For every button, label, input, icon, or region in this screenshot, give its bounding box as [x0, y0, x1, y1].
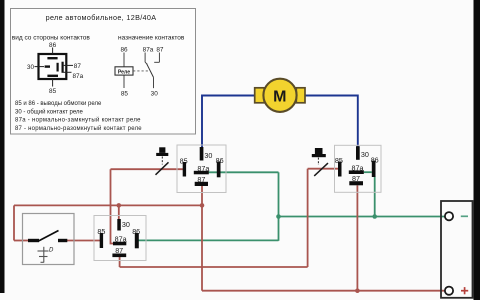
- svg-text:87: 87: [156, 47, 164, 54]
- svg-text:87: 87: [352, 174, 360, 183]
- relay K3 pin 87: [112, 246, 126, 257]
- relay K1 pin 30: [200, 147, 213, 161]
- relay K1 pin 86: [216, 156, 224, 177]
- pinout pin 87a lead: [62, 62, 84, 80]
- svg-text:85: 85: [97, 227, 105, 236]
- letterbox bar left: [0, 0, 5, 293]
- node: green junction at K2 drop: [372, 214, 377, 219]
- relay symbol: contact 87: [154, 47, 164, 63]
- wire red: relay K3 pin 87 down: [119, 257, 121, 268]
- pushbutton actuator icon at relay K1: [156, 147, 169, 175]
- node: red junction rail/K3-30: [117, 203, 122, 208]
- battery minus label: [461, 215, 468, 217]
- wire red: switch to relay K3 pin 85: [67, 240, 100, 242]
- svg-text:86: 86: [132, 227, 140, 236]
- relay K1 pin 87a: [194, 164, 210, 174]
- wire red: down to relay K3 pin 87a: [111, 169, 114, 243]
- battery / power connector X1: [441, 201, 473, 298]
- battery plus label: [461, 287, 468, 294]
- svg-text:86: 86: [216, 156, 224, 165]
- relay K3 pin 30: [117, 219, 130, 231]
- wire red: supply rail horizontal: [14, 204, 202, 206]
- switch S1 manual actuator glyph: [38, 247, 55, 263]
- svg-text:85: 85: [335, 156, 343, 165]
- relay K3 pin 87a: [113, 234, 127, 245]
- svg-text:87: 87: [115, 246, 123, 255]
- wire red: relay K2 pin 87 down to bottom run: [356, 185, 358, 290]
- svg-text:87a: 87a: [115, 234, 127, 243]
- svg-text:87 - нормально-разомкнутый кон: 87 - нормально-разомкнутый контакт реле: [15, 125, 142, 132]
- svg-text:87а - нормально-замкнутый конт: 87а - нормально-замкнутый контакт реле: [15, 117, 141, 124]
- svg-text:Реле: Реле: [118, 70, 130, 76]
- svg-text:30: 30: [204, 151, 212, 160]
- svg-text:87: 87: [74, 63, 82, 70]
- battery minus terminal: [445, 212, 453, 220]
- svg-text:30: 30: [361, 150, 369, 159]
- relay K3 pin 86: [132, 227, 140, 248]
- switch S1 lever: [39, 231, 59, 242]
- relay symbol: actuation dashed link: [133, 70, 149, 72]
- pushbutton actuator icon at relay K2: [312, 148, 328, 176]
- wire green: lower run to relay K3 pin 86: [139, 239, 279, 241]
- svg-text:87a: 87a: [197, 164, 209, 173]
- svg-text:30 - общий контакт реле: 30 - общий контакт реле: [15, 108, 84, 115]
- svg-text:86: 86: [120, 47, 128, 54]
- svg-text:реле автомобильное, 12В/40А: реле автомобильное, 12В/40А: [46, 13, 157, 22]
- svg-text:87a: 87a: [352, 164, 364, 173]
- node: green junction at A: [276, 214, 281, 219]
- switch S1 box: [23, 214, 75, 265]
- relay K1 pin 85: [180, 157, 188, 177]
- relay K3 body: [94, 216, 146, 261]
- svg-text:30: 30: [27, 64, 35, 71]
- switch S1 left contact: [28, 239, 39, 242]
- svg-text:D: D: [49, 248, 54, 254]
- wire green: relay K2 pin 86 down to bus: [374, 177, 376, 217]
- wire green: relay K1 87a/86 to node A: [209, 171, 279, 173]
- wire blue: motor left to relay K1 pin 30: [202, 96, 255, 148]
- relay pinout drawing: body: [39, 54, 67, 79]
- wire green: relay K2 87a to 86: [364, 171, 372, 173]
- node: red junction rail/K1-87: [200, 203, 205, 208]
- wire red: to relay K1 pin 85: [111, 168, 183, 170]
- switch S1 right contact: [58, 239, 67, 242]
- svg-text:85: 85: [121, 91, 129, 98]
- pinout pin 87 lead: [58, 63, 82, 72]
- wire red: rail to relay K3 pin 30: [118, 205, 120, 219]
- svg-text:87a: 87a: [73, 73, 84, 80]
- wire blue: motor right to relay K2 pin 30: [305, 96, 358, 148]
- battery plus terminal: [445, 287, 453, 295]
- svg-text:M: M: [273, 88, 286, 105]
- pinout pin 86 lead: [47, 42, 57, 58]
- wire red: riser up to relay K2 85 level: [307, 169, 309, 267]
- svg-text:85: 85: [49, 88, 57, 95]
- svg-text:вид со стороны контактов: вид со стороны контактов: [12, 35, 91, 42]
- relay K1 body: [177, 145, 226, 193]
- wire red: into relay K2 pin 85: [308, 168, 339, 170]
- relay K2 pin 30: [356, 146, 369, 160]
- node: red junction bottom/K2-87: [355, 288, 360, 293]
- svg-text:87: 87: [197, 175, 205, 184]
- relay symbol: common 30 with movable contact: [147, 64, 158, 98]
- wire red: rail down to switch: [13, 205, 15, 240]
- relay K2 pin 87: [349, 174, 363, 186]
- relay K2 pin 86: [371, 156, 379, 177]
- relay symbol: coil box: [115, 67, 133, 76]
- svg-text:30: 30: [151, 91, 159, 98]
- svg-text:87a: 87a: [143, 47, 154, 54]
- letterbox bar right: [474, 0, 480, 300]
- pinout pin 30 lead: [27, 64, 50, 71]
- pinout pin 85 lead: [47, 76, 58, 95]
- svg-text:86: 86: [371, 156, 379, 165]
- wire red: bottom run to battery plus: [202, 290, 445, 292]
- wire green: node A down to lower run: [278, 172, 280, 241]
- relay K2 pin 87a: [349, 164, 364, 174]
- svg-text:85: 85: [180, 157, 188, 166]
- svg-text:85 и 86 - выводы обмотки реле: 85 и 86 - выводы обмотки реле: [15, 101, 102, 107]
- relay K2 pin 85: [335, 156, 343, 176]
- relay K3 pin 85: [97, 227, 105, 248]
- relay symbol: coil pin 86: [120, 47, 128, 67]
- motor M: [255, 79, 305, 112]
- svg-text:30: 30: [122, 220, 130, 229]
- wire red: relay K1 pin 87 down to bottom run: [201, 186, 203, 291]
- wire red: K3 87 across to K2 85 riser: [120, 266, 308, 268]
- relay symbol: contact 87a: [143, 47, 154, 65]
- relay K1 pin 87: [195, 175, 208, 186]
- wire red: into switch left blade: [14, 240, 30, 242]
- wire green: bus to battery minus: [279, 216, 446, 218]
- relay K2 body: [335, 145, 382, 192]
- svg-text:назначение контактов: назначение контактов: [118, 35, 185, 42]
- relay symbol: coil pin 85: [121, 75, 129, 97]
- svg-text:86: 86: [49, 42, 57, 49]
- legend frame: [11, 9, 196, 135]
